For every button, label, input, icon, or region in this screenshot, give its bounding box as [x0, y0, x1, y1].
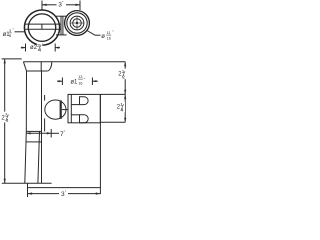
column left edge	[25, 71, 27, 183]
junction between circles	[56, 15, 67, 17]
top dimension 3" extension line left	[41, 1, 43, 11]
svg-text:ø1: ø1	[70, 79, 78, 85]
label 2 1/2 right top (diagonal fraction)	[118, 69, 127, 80]
leader line for ø1 3/8 label	[15, 31, 25, 33]
svg-text:4: 4	[121, 108, 124, 113]
svg-text:8: 8	[9, 34, 11, 38]
valve neck line	[44, 95, 46, 101]
label ø2 3/4 (diagonal fraction)	[37, 42, 43, 47]
slot end ticks	[28, 24, 30, 29]
svg-text:4: 4	[6, 118, 9, 123]
7" dimension tick	[50, 129, 52, 138]
bracket top lug	[80, 97, 89, 105]
plan view: large cap outer circle	[24, 10, 59, 45]
small circle crosshair	[70, 22, 84, 24]
left overall-height dimension line	[4, 59, 6, 183]
top dimension 3" line	[42, 4, 57, 6]
ø2 3/4 dimension arrows	[21, 47, 26, 49]
plan view: small outlet circle rings	[65, 11, 90, 36]
svg-text:2: 2	[122, 75, 125, 80]
slot lower line	[25, 28, 61, 30]
cap top line extending to right dimension	[23, 61, 125, 63]
ground line right	[28, 187, 101, 189]
svg-text:3: 3	[9, 29, 11, 33]
top dimension 3" extension line right	[79, 1, 81, 11]
ø1 13/16 dimension arrows	[57, 80, 62, 82]
ø1 13/16 dimension ticks	[61, 78, 63, 86]
valve stem bar	[60, 100, 62, 118]
bracket middle lines	[71, 104, 79, 106]
svg-text:16: 16	[78, 81, 82, 85]
bracket inner vertical	[70, 94, 72, 122]
small circle center dot	[76, 22, 78, 24]
svg-text:4: 4	[39, 47, 42, 52]
label 2 3/4 left (diagonal fraction)	[1, 112, 10, 124]
column joint line 2	[26, 141, 41, 143]
drain / outlet face line	[99, 94, 101, 194]
stem to bracket line	[62, 109, 68, 111]
ø2 3/4 dimension ticks	[25, 44, 27, 52]
plan view: large cap inner circle	[28, 14, 55, 41]
bracket bottom extension to right dimension	[100, 121, 125, 123]
bottom dimension line	[28, 193, 60, 195]
left dimension top tick	[2, 58, 22, 60]
top dimension arrowheads	[42, 4, 47, 6]
label 2 1/4 right bottom (diagonal fraction)	[116, 102, 125, 113]
slot center line	[41, 24, 43, 29]
floor line	[2, 182, 52, 184]
column joint line	[26, 130, 41, 132]
slot upper line	[25, 23, 61, 25]
cap bottom	[27, 70, 48, 72]
bracket bottom lug	[80, 115, 89, 123]
7" dimension line	[26, 132, 51, 134]
valve wheel	[45, 100, 66, 119]
right dimension line	[124, 62, 126, 123]
cap left slant	[23, 62, 26, 71]
column inner taper line	[38, 131, 40, 183]
leader line for ø 11/16 label	[87, 31, 95, 36]
svg-text:16: 16	[107, 36, 111, 40]
column right edge	[41, 71, 43, 183]
svg-text:13: 13	[78, 75, 82, 79]
cap inner vertical	[40, 62, 42, 71]
bracket outline	[68, 94, 100, 122]
svg-text:ø: ø	[101, 34, 105, 40]
bottom dimension left tick	[27, 183, 29, 197]
svg-text:11: 11	[107, 31, 111, 35]
cap right shoulder arc	[47, 62, 52, 71]
bracket top extension to right dimension	[100, 93, 125, 95]
